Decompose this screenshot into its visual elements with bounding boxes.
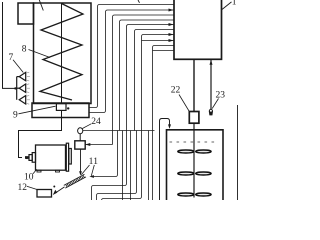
- svg-text:22: 22: [171, 86, 181, 96]
- svg-text:7: 7: [9, 53, 14, 63]
- svg-text:23: 23: [216, 91, 226, 101]
- svg-text:8: 8: [22, 45, 27, 55]
- svg-text:1: 1: [93, 157, 98, 167]
- svg-text:24: 24: [91, 117, 101, 127]
- svg-text:10: 10: [24, 173, 34, 183]
- svg-text:1: 1: [232, 0, 237, 8]
- svg-text:9: 9: [13, 111, 18, 121]
- svg-text:12: 12: [18, 183, 28, 193]
